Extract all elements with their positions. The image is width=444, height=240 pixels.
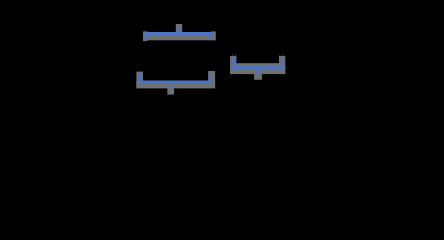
underbrace B2 gray halo <box>136 71 215 95</box>
underbrace B3 blue bracket <box>232 58 284 75</box>
underbrace B3 top serif dots <box>232 54 284 55</box>
overbrace B1 blue bracket <box>144 27 211 38</box>
overbrace B1 gray halo <box>143 24 216 41</box>
underbrace B2 blue bracket <box>138 74 212 89</box>
underbrace B3 gray halo <box>230 56 285 80</box>
